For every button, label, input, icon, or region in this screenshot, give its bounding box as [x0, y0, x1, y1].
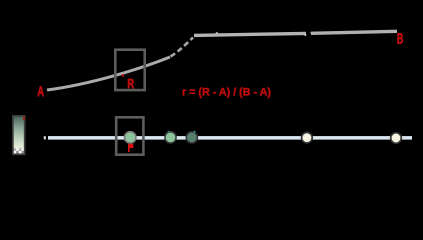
checkerboard alpha rows at bar bottom — [13, 148, 24, 154]
node dot at plateau gap left — [305, 34, 307, 36]
selection box on curve around R — [115, 50, 144, 90]
white stop 4 — [302, 132, 313, 143]
teal speck on stop 2 — [168, 131, 169, 132]
green stop 3 (darker) — [186, 132, 197, 143]
green stop 2 — [165, 132, 176, 143]
curve segment A to R (solid rising) — [47, 57, 170, 90]
gradient preview bar — [13, 116, 25, 154]
curve plateau left segment — [194, 33, 306, 35]
cyan speck on stop 3 — [194, 131, 196, 133]
curve plateau right segment to B — [311, 31, 397, 33]
selection box on ramp around r stop — [116, 117, 143, 154]
ramp line start tick — [44, 136, 46, 139]
svg-text:B: B — [397, 32, 403, 48]
green stop r (boxed) — [125, 132, 136, 143]
red flag marker r under boxed stop — [128, 144, 133, 152]
svg-text:A: A — [37, 83, 44, 99]
svg-text:r = (R - A) / (B - A): r = (R - A) / (B - A) — [182, 87, 271, 99]
node highlight on plateau — [216, 32, 218, 34]
ramp line — [48, 136, 412, 140]
white stop 5 — [391, 133, 402, 144]
curve dashed steep segment — [171, 38, 194, 57]
red point marker near R — [122, 74, 124, 76]
node dot at plateau gap right — [311, 32, 313, 34]
svg-text:R: R — [127, 76, 134, 91]
red sliver at bar top right — [23, 116, 25, 120]
